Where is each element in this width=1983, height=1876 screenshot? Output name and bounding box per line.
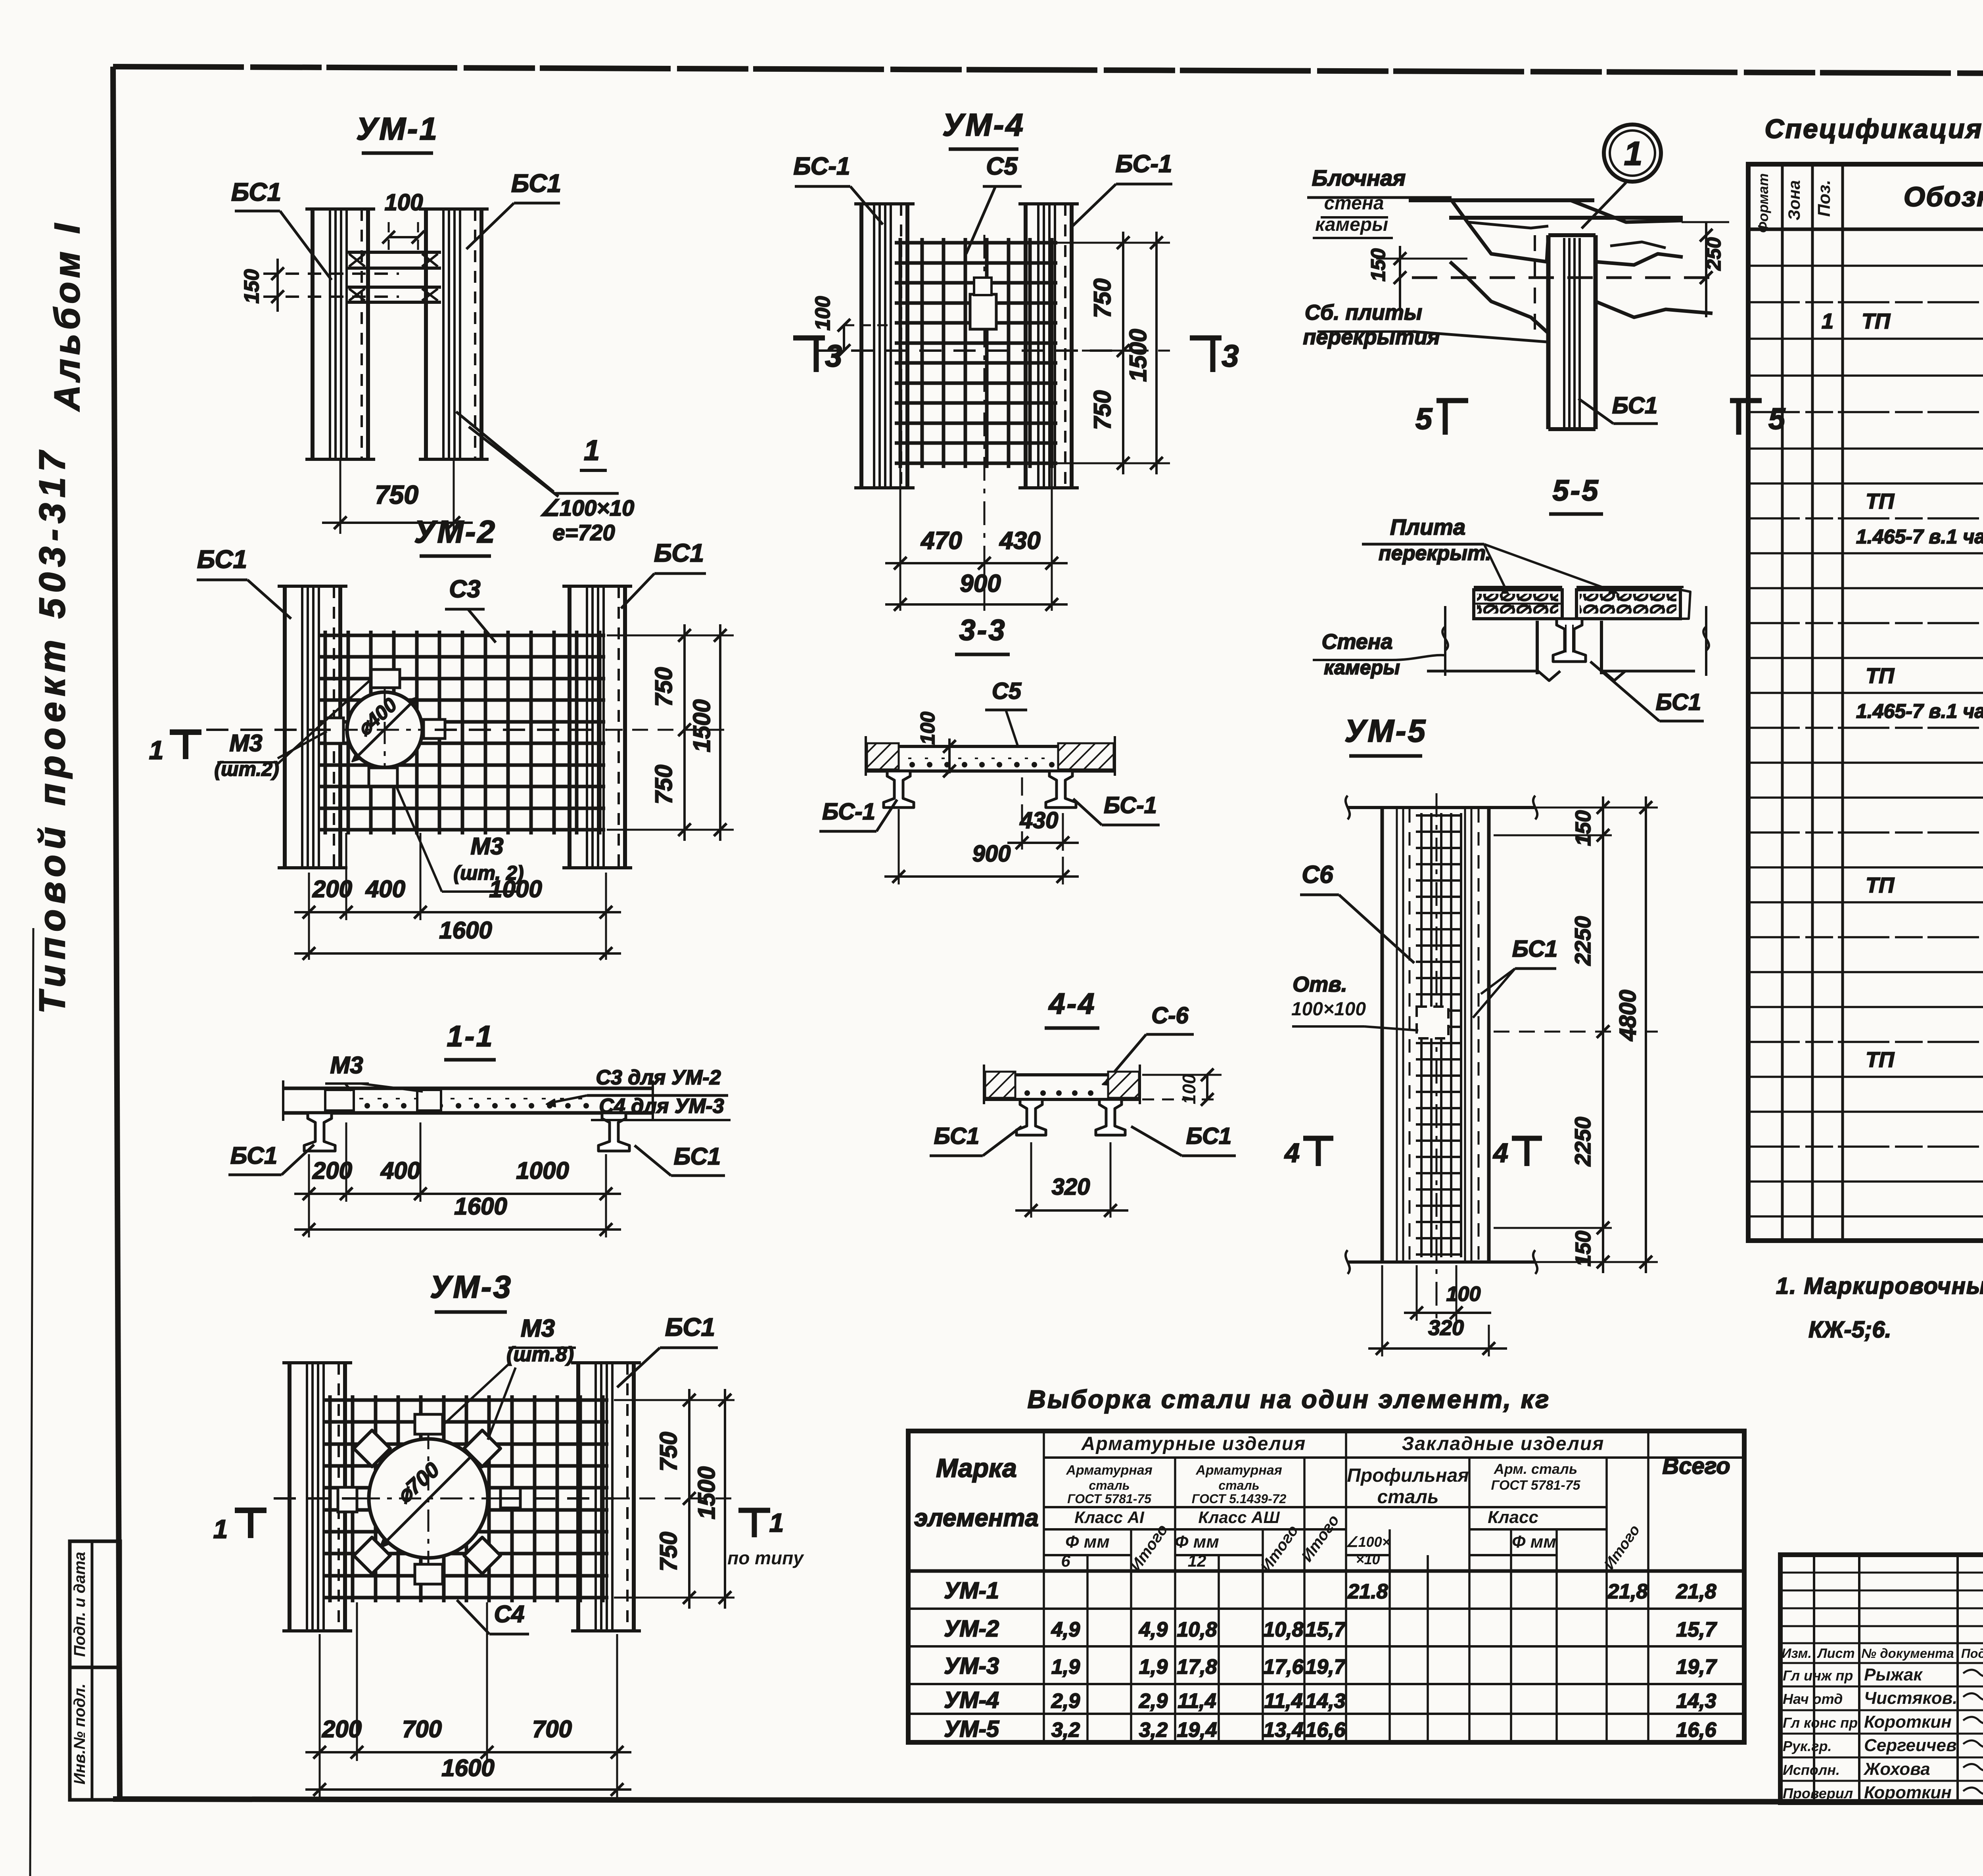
svg-text:1600: 1600 xyxy=(439,917,492,944)
svg-text:14,3: 14,3 xyxy=(1676,1690,1716,1713)
svg-text:ТП: ТП xyxy=(1862,309,1891,333)
svg-text:21,8: 21,8 xyxy=(1607,1580,1647,1603)
svg-text:200: 200 xyxy=(312,876,352,902)
UM-4 center axis xyxy=(984,235,986,558)
svg-text:1,9: 1,9 xyxy=(1051,1655,1080,1678)
svg-text:М3: М3 xyxy=(521,1315,555,1342)
svg-text:Изм.: Изм. xyxy=(1782,1646,1812,1661)
svg-text:е=720: е=720 xyxy=(552,520,615,545)
svg-text:14,3: 14,3 xyxy=(1305,1690,1345,1713)
svg-text:Альбом I: Альбом I xyxy=(48,220,87,412)
UM-2 label BS1 top-left xyxy=(197,545,291,619)
UM-3 section marker 1 left xyxy=(213,1510,267,1544)
UM-5 label BS1 xyxy=(1473,936,1557,1018)
title block outer xyxy=(1780,1555,1983,1803)
svg-text:Отв.: Отв. xyxy=(1293,973,1347,996)
svg-text:Закладные изделия: Закладные изделия xyxy=(1402,1433,1605,1454)
UM-5 opening otv 100x100 xyxy=(1417,1007,1448,1038)
5-5 label Plita perekryt xyxy=(1362,514,1618,596)
svg-text:Арматурная: Арматурная xyxy=(1066,1463,1152,1478)
node 1 circled mark xyxy=(1604,125,1661,182)
svg-text:1,9: 1,9 xyxy=(1139,1655,1168,1678)
svg-text:Арм. сталь: Арм. сталь xyxy=(1494,1461,1577,1477)
svg-text:1000: 1000 xyxy=(516,1157,569,1184)
UM-3 anchor diamond top-right xyxy=(464,1430,501,1467)
svg-text:900: 900 xyxy=(972,841,1011,867)
UM-2 cut line 1-1 dashed xyxy=(206,729,607,731)
svg-text:Инв.№ подл.: Инв.№ подл. xyxy=(71,1684,88,1785)
svg-text:Короткин: Короткин xyxy=(1864,1783,1952,1802)
UM-1 leader note 1 angle xyxy=(456,412,619,497)
node detail dim 150 xyxy=(1367,246,1467,309)
svg-text:3: 3 xyxy=(1222,338,1239,373)
node detail dim 250 xyxy=(1682,222,1729,317)
svg-text:Жохова: Жохова xyxy=(1863,1759,1930,1779)
svg-text:19,7: 19,7 xyxy=(1676,1655,1717,1678)
svg-text:150: 150 xyxy=(1571,1231,1595,1266)
svg-text:5: 5 xyxy=(1415,402,1433,436)
node detail label BS1 xyxy=(1578,393,1658,424)
UM-4 rebar mesh C5 xyxy=(895,238,1057,468)
UM-5 center axis xyxy=(1436,793,1438,1321)
svg-text:700: 700 xyxy=(532,1716,572,1742)
UM-1 dim 150 left xyxy=(240,259,399,312)
UM-2 label M3 sht2 left xyxy=(214,681,370,780)
svg-text:21,8: 21,8 xyxy=(1676,1580,1716,1603)
svg-text:БС1: БС1 xyxy=(1612,393,1657,418)
svg-text:Обозначение: Обозначение xyxy=(1904,181,1983,212)
svg-text:900: 900 xyxy=(960,570,1001,597)
UM-3 hole circle d700 xyxy=(358,1427,499,1570)
svg-text:БС1: БС1 xyxy=(654,539,704,567)
svg-text:15,7: 15,7 xyxy=(1305,1618,1346,1641)
svg-text:С3 для УМ-2: С3 для УМ-2 xyxy=(596,1066,721,1089)
svg-text:400: 400 xyxy=(380,1157,420,1184)
svg-text:УМ-2: УМ-2 xyxy=(414,514,497,549)
svg-text:Ф мм: Ф мм xyxy=(1512,1532,1556,1552)
UM-5 outer walls xyxy=(1382,808,1489,1262)
UM-3 anchor plate left-mid xyxy=(338,1487,357,1512)
4-4 slab xyxy=(984,1065,1140,1104)
UM-5 right BS1 lines xyxy=(1465,809,1479,1260)
svg-text:Ф мм: Ф мм xyxy=(1065,1532,1110,1552)
UM-2 dims 200-400-1000 bottom xyxy=(294,833,621,960)
UM-2 label C3 xyxy=(445,575,496,643)
UM-3 label BS1 xyxy=(617,1313,718,1387)
svg-text:750: 750 xyxy=(650,667,677,707)
svg-text:2,9: 2,9 xyxy=(1139,1690,1168,1713)
svg-text:ГОСТ 5781-75: ГОСТ 5781-75 xyxy=(1491,1478,1580,1493)
svg-text:2250: 2250 xyxy=(1570,916,1595,966)
3-3 label BS-1 right xyxy=(1073,792,1160,825)
specification table title xyxy=(1764,114,1983,144)
UM-5 top cap xyxy=(1346,796,1537,819)
5-5 left slab xyxy=(1474,590,1562,619)
spec rows UM-5 block xyxy=(1866,976,1983,1176)
UM-3 anchor diamond bottom-right xyxy=(464,1537,501,1574)
node detail label Sb plity perekrytiya xyxy=(1303,301,1547,349)
title block left table texts xyxy=(1782,1646,1983,1802)
3-3 dim 430 xyxy=(1007,777,1079,851)
svg-text:Класс АШ: Класс АШ xyxy=(1198,1508,1280,1527)
4-4 right rail BS1 xyxy=(1096,1099,1125,1135)
UM-3 rebar mesh C4 xyxy=(324,1395,608,1602)
3-3 right rail BS-1 xyxy=(1046,771,1076,808)
svg-text:700: 700 xyxy=(402,1716,442,1742)
UM-5 mesh C6 xyxy=(1416,813,1462,1257)
5-5 label Stena kamery xyxy=(1313,630,1444,679)
UM-3 anchor plate right-mid xyxy=(501,1488,520,1508)
svg-text:1500: 1500 xyxy=(693,1466,720,1519)
svg-text:Сб. плиты: Сб. плиты xyxy=(1305,301,1422,324)
svg-text:БС-1: БС-1 xyxy=(794,153,850,180)
3-3 label C5 xyxy=(985,678,1027,746)
3-3 left rail BS-1 xyxy=(884,771,914,808)
svg-text:2250: 2250 xyxy=(1570,1117,1595,1167)
3-3 dim 100 left xyxy=(917,712,980,777)
svg-text:13,4: 13,4 xyxy=(1263,1719,1303,1742)
4-4 label C-6 xyxy=(1103,1003,1194,1085)
svg-text:21.8: 21.8 xyxy=(1347,1580,1388,1603)
1-1 anchor plates M3 xyxy=(325,1090,441,1111)
UM-1 label BS1 right xyxy=(466,169,561,249)
svg-text:БС1: БС1 xyxy=(231,178,281,206)
UM-3 left I-beam column BS1 xyxy=(282,1363,352,1631)
svg-text:150: 150 xyxy=(1571,810,1595,846)
svg-text:Рыжак: Рыжак xyxy=(1864,1665,1923,1684)
steel selection table title xyxy=(1028,1385,1551,1414)
svg-text:ГОСТ 5781-75: ГОСТ 5781-75 xyxy=(1067,1492,1152,1506)
node detail label Blochnaya stena kamery xyxy=(1307,165,1452,238)
UM-2 label M3 sht2 bottom xyxy=(397,787,524,892)
svg-text:750: 750 xyxy=(1089,278,1116,318)
1-1 label M3 xyxy=(325,1052,423,1091)
svg-text:750: 750 xyxy=(1089,390,1116,430)
UM-1 label BS1 left xyxy=(231,178,332,280)
svg-text:10,8: 10,8 xyxy=(1177,1618,1217,1641)
5-5 wall below xyxy=(1427,621,1695,681)
svg-text:750: 750 xyxy=(655,1532,682,1571)
outer sheet edge left xyxy=(30,928,33,1876)
UM-4 right I-beam column BS-1 xyxy=(1018,204,1079,488)
svg-text:Марка: Марка xyxy=(936,1453,1017,1483)
detail UM-5 title xyxy=(1344,713,1427,756)
svg-text:Исполн.: Исполн. xyxy=(1783,1762,1840,1778)
UM-3 dim 1600 bottom xyxy=(305,1755,631,1796)
UM-4 left I-beam column BS-1 xyxy=(854,204,915,488)
svg-text:БС-1: БС-1 xyxy=(1104,792,1157,818)
svg-text:УМ-2: УМ-2 xyxy=(944,1616,999,1642)
svg-text:М3: М3 xyxy=(229,730,262,756)
svg-text:Короткин: Короткин xyxy=(1864,1712,1952,1732)
1-1 label BS1 right xyxy=(635,1143,725,1176)
section 4-4 title xyxy=(1045,987,1099,1028)
margin text Album I xyxy=(48,220,87,412)
5-5 label BS1 xyxy=(1590,662,1704,721)
UM-4 section marker 3 right xyxy=(1190,338,1239,373)
svg-text:1600: 1600 xyxy=(454,1193,507,1220)
svg-text:750: 750 xyxy=(655,1432,682,1471)
svg-text:УМ-1: УМ-1 xyxy=(944,1578,999,1604)
UM-2 anchor plate M3 top xyxy=(371,669,400,688)
svg-text:320: 320 xyxy=(1428,1316,1464,1340)
svg-text:17,6: 17,6 xyxy=(1263,1655,1304,1678)
UM-2 rebar mesh C3 xyxy=(320,631,605,834)
5-5 top cap lines xyxy=(1474,586,1684,588)
UM-3 right I-beam column BS1 xyxy=(571,1363,641,1631)
svg-text:4,9: 4,9 xyxy=(1139,1618,1168,1641)
UM-1 dim 100 top xyxy=(382,190,424,254)
svg-text:ТП: ТП xyxy=(1866,873,1895,897)
svg-text:4,9: 4,9 xyxy=(1051,1618,1080,1641)
svg-text:150: 150 xyxy=(240,269,263,304)
UM-5 label Otv 100x100 xyxy=(1291,973,1418,1030)
steel selection table data xyxy=(944,1578,1717,1742)
node detail section marker 5 right xyxy=(1730,401,1786,436)
margin text Tipovoy proekt 503-317 xyxy=(32,446,73,1014)
4-4 label BS1 right xyxy=(1131,1123,1236,1156)
svg-text:Арматурные изделия: Арматурные изделия xyxy=(1081,1433,1306,1454)
svg-text:3-3: 3-3 xyxy=(959,614,1007,646)
svg-text:2,9: 2,9 xyxy=(1051,1690,1080,1713)
UM-4 dim 900 bottom xyxy=(885,570,1068,611)
svg-text:Лист: Лист xyxy=(1816,1646,1855,1661)
spec rows UM-3 block xyxy=(1856,627,1983,792)
UM-4 label C5 xyxy=(966,153,1022,254)
svg-text:УМ-3: УМ-3 xyxy=(944,1653,999,1679)
svg-text:17,8: 17,8 xyxy=(1177,1655,1217,1678)
svg-text:100: 100 xyxy=(811,296,834,331)
UM-2 right I-beam column BS1 xyxy=(562,586,632,868)
svg-text:Выборка стали на один э: Выборка стали на один элемент, кг xyxy=(1028,1385,1551,1414)
svg-text:100: 100 xyxy=(385,190,423,215)
svg-text:1: 1 xyxy=(1822,309,1833,333)
4-4 left rail BS1 xyxy=(1016,1099,1046,1135)
UM-4 label BS-1 left xyxy=(794,153,883,224)
UM-2 label BS1 top-right xyxy=(621,539,706,608)
svg-text:1: 1 xyxy=(769,1508,784,1537)
specification table header texts xyxy=(1755,171,1983,233)
svg-text:элемента: элемента xyxy=(914,1504,1039,1532)
specification table grid xyxy=(1748,164,1983,1241)
svg-text:БС1: БС1 xyxy=(1656,689,1701,715)
4-4 label BS1 left xyxy=(930,1123,1022,1156)
svg-text:Спецификация элементов монолит: Спецификация элементов монолитной констр… xyxy=(1764,114,1983,144)
svg-text:Блочная: Блочная xyxy=(1312,165,1406,190)
section 5-5 title xyxy=(1549,474,1603,514)
svg-text:16,6: 16,6 xyxy=(1305,1719,1346,1742)
svg-text:1: 1 xyxy=(149,735,164,765)
svg-text:100: 100 xyxy=(917,712,939,745)
svg-text:19,7: 19,7 xyxy=(1305,1655,1346,1678)
svg-text:Стена: Стена xyxy=(1322,630,1393,654)
svg-text:200: 200 xyxy=(322,1716,362,1742)
svg-text:БС-1: БС-1 xyxy=(822,799,875,825)
spec rows UM-2 block xyxy=(1856,418,1983,618)
detail UM-3 title xyxy=(430,1269,512,1312)
node detail leader from circle xyxy=(1582,182,1626,228)
svg-text:5-5: 5-5 xyxy=(1553,474,1600,507)
svg-text:Плита: Плита xyxy=(1390,514,1465,539)
svg-text:С6: С6 xyxy=(1302,861,1333,888)
svg-text:сталь: сталь xyxy=(1377,1487,1438,1508)
svg-text:УМ-4: УМ-4 xyxy=(942,107,1025,142)
svg-text:∠100×10: ∠100×10 xyxy=(540,495,635,520)
note about marking plan xyxy=(1776,1273,1983,1343)
svg-text:ТП: ТП xyxy=(1866,1048,1895,1072)
svg-text:320: 320 xyxy=(1052,1174,1090,1200)
UM-2 dim 1600 bottom xyxy=(294,917,621,960)
svg-text:4-4: 4-4 xyxy=(1048,987,1096,1020)
spec rows UM-1 block xyxy=(1822,235,1983,407)
UM-1 connecting plates xyxy=(346,252,441,302)
svg-text:3,2: 3,2 xyxy=(1051,1719,1080,1742)
svg-text:УМ-4: УМ-4 xyxy=(944,1687,999,1713)
svg-text:Всего: Всего xyxy=(1662,1453,1730,1479)
UM-2 anchor plate M3 bottom xyxy=(369,768,397,786)
UM-3 anchor plate bottom-center xyxy=(415,1564,443,1584)
steel selection table header texts xyxy=(914,1433,1730,1575)
1-1 dims 200-400-1000 bottom xyxy=(294,1122,621,1237)
UM-1 dim 750 bottom xyxy=(322,460,473,534)
svg-text:4: 4 xyxy=(1284,1138,1300,1168)
3-3 label BS-1 left xyxy=(819,799,897,831)
svg-text:сталь: сталь xyxy=(1089,1478,1130,1492)
5-5 right slab xyxy=(1576,590,1690,619)
svg-text:Гл конс пр: Гл конс пр xyxy=(1783,1715,1858,1731)
svg-text:1.465-7 в.1 часть2 М-3: 1.465-7 в.1 часть2 М-3 xyxy=(1856,700,1983,722)
5-5 middle I-beam BS1 xyxy=(1553,619,1586,662)
UM-5 bottom cap xyxy=(1346,1250,1537,1274)
UM-4 dims 750-750-1500 right xyxy=(1057,232,1170,474)
stamp box Inv No podl xyxy=(70,1667,120,1800)
svg-text:1.465-7 в.1 часть2 М-3: 1.465-7 в.1 часть2 М-3 xyxy=(1856,526,1983,548)
svg-text:1. Маркировочный план монол: 1. Маркировочный план монолитных участко… xyxy=(1776,1273,1983,1299)
svg-text:Подп. и дата: Подп. и дата xyxy=(71,1552,88,1657)
svg-text:С4: С4 xyxy=(494,1601,525,1627)
svg-text:БС1: БС1 xyxy=(197,545,247,574)
detail UM-2 title xyxy=(414,514,497,556)
UM-5 section marker 4 left xyxy=(1284,1138,1333,1168)
3-3 slab xyxy=(866,736,1115,776)
UM-4 cut line 3-3 dashed xyxy=(817,349,1158,352)
detail UM-4 title xyxy=(942,107,1025,149)
svg-text:4800: 4800 xyxy=(1615,990,1641,1041)
svg-text:Нач отд: Нач отд xyxy=(1783,1691,1843,1707)
UM-1 right I-beam column BS1 xyxy=(419,209,489,459)
svg-text:250: 250 xyxy=(1703,237,1725,271)
svg-text:УМ-5: УМ-5 xyxy=(1344,713,1427,748)
svg-text:БС1: БС1 xyxy=(230,1142,277,1169)
UM-5 left BS1 lines xyxy=(1397,809,1410,1260)
svg-text:1500: 1500 xyxy=(1125,329,1151,382)
UM-2 section marker 1 left xyxy=(149,732,201,765)
svg-text:УМ-1: УМ-1 xyxy=(356,111,439,146)
UM-3 cut line 1-1 dashed xyxy=(274,1497,614,1500)
svg-text:150: 150 xyxy=(1367,248,1389,282)
UM-4 center anchor plate xyxy=(970,278,996,329)
section 3-3 title xyxy=(955,614,1010,654)
svg-text:Чистяков.: Чистяков. xyxy=(1864,1688,1958,1708)
UM-3 dims 750-750-1500 right xyxy=(614,1389,735,1609)
svg-text:БС1: БС1 xyxy=(934,1123,979,1149)
svg-text:УМ-5: УМ-5 xyxy=(944,1716,999,1742)
1-1 label C3 C4 xyxy=(547,1066,731,1120)
title block left table grid xyxy=(1780,1555,1983,1803)
UM-3 anchor diamond bottom-left xyxy=(354,1537,390,1574)
svg-text:470: 470 xyxy=(920,527,962,554)
UM-2 anchor plate M3 right xyxy=(424,719,445,739)
UM-2 hole circle d400 xyxy=(336,681,435,779)
svg-text:ТП: ТП xyxy=(1866,489,1895,513)
svg-text:БС1: БС1 xyxy=(1186,1123,1231,1149)
node detail section marker 5 left xyxy=(1415,401,1468,436)
svg-text:15,7: 15,7 xyxy=(1676,1618,1717,1641)
UM-5 label C6 xyxy=(1300,861,1414,963)
svg-text:750: 750 xyxy=(650,765,677,804)
svg-text:сталь: сталь xyxy=(1218,1478,1259,1492)
svg-text:1600: 1600 xyxy=(441,1755,494,1781)
svg-text:УМ-3: УМ-3 xyxy=(430,1269,512,1304)
svg-text:Поз.: Поз. xyxy=(1814,180,1834,217)
svg-text:БС1: БС1 xyxy=(1512,936,1557,962)
svg-text:100×100: 100×100 xyxy=(1291,999,1366,1020)
UM-4 label BS-1 right xyxy=(1071,150,1172,228)
svg-text:Ф мм: Ф мм xyxy=(1175,1532,1219,1552)
UM-2 left I-beam column BS1 xyxy=(278,586,347,868)
1-1 right rail BS1 xyxy=(598,1113,629,1151)
svg-text:1: 1 xyxy=(584,435,600,466)
svg-text:Сергеичев: Сергеичев xyxy=(1864,1736,1957,1755)
UM-1 note L100x10 e=720 xyxy=(540,495,635,545)
4-4 dim 320 xyxy=(1015,1142,1128,1218)
svg-text:С3: С3 xyxy=(449,575,480,603)
svg-text:430: 430 xyxy=(999,527,1040,554)
svg-text:1: 1 xyxy=(1624,135,1643,172)
UM-4 section marker 3 left xyxy=(793,338,842,373)
svg-text:стена: стена xyxy=(1324,193,1384,214)
svg-text:Типовой проект 503-317: Типовой проект 503-317 xyxy=(32,446,73,1014)
svg-text:Проверил: Проверил xyxy=(1783,1785,1853,1801)
UM-3 section marker 1 right (po tipu) xyxy=(727,1508,804,1568)
svg-text:(шт.8): (шт.8) xyxy=(506,1343,574,1366)
svg-text:М3: М3 xyxy=(470,833,503,859)
1-1 label BS1 left xyxy=(228,1142,314,1175)
UM-3 anchor plate top-center xyxy=(415,1414,443,1434)
svg-text:200: 200 xyxy=(312,1157,352,1184)
svg-text:×10: ×10 xyxy=(1356,1551,1380,1567)
svg-text:430: 430 xyxy=(1020,808,1059,833)
svg-text:11,4: 11,4 xyxy=(1264,1690,1302,1713)
section 1-1 title xyxy=(444,1020,496,1060)
svg-text:Формат: Формат xyxy=(1755,173,1771,233)
svg-text:№ документа: № документа xyxy=(1861,1646,1954,1661)
svg-text:Зона: Зона xyxy=(1785,180,1803,220)
svg-text:М3: М3 xyxy=(330,1052,363,1078)
UM-5 dims bottom 100 320 xyxy=(1368,1265,1507,1356)
svg-text:4: 4 xyxy=(1492,1138,1508,1168)
svg-text:БС-1: БС-1 xyxy=(1116,150,1172,178)
node detail dashed axis xyxy=(1412,276,1713,279)
svg-text:С4 для УМ-3: С4 для УМ-3 xyxy=(599,1095,724,1118)
1-1 left rail BS1 xyxy=(304,1113,335,1151)
svg-text:19,4: 19,4 xyxy=(1177,1719,1217,1742)
svg-text:С-6: С-6 xyxy=(1151,1003,1189,1028)
svg-text:10,8: 10,8 xyxy=(1263,1618,1303,1641)
svg-text:по типу: по типу xyxy=(727,1548,804,1568)
UM-5 section marker 4 right xyxy=(1492,1138,1542,1168)
svg-text:16,6: 16,6 xyxy=(1676,1719,1716,1742)
